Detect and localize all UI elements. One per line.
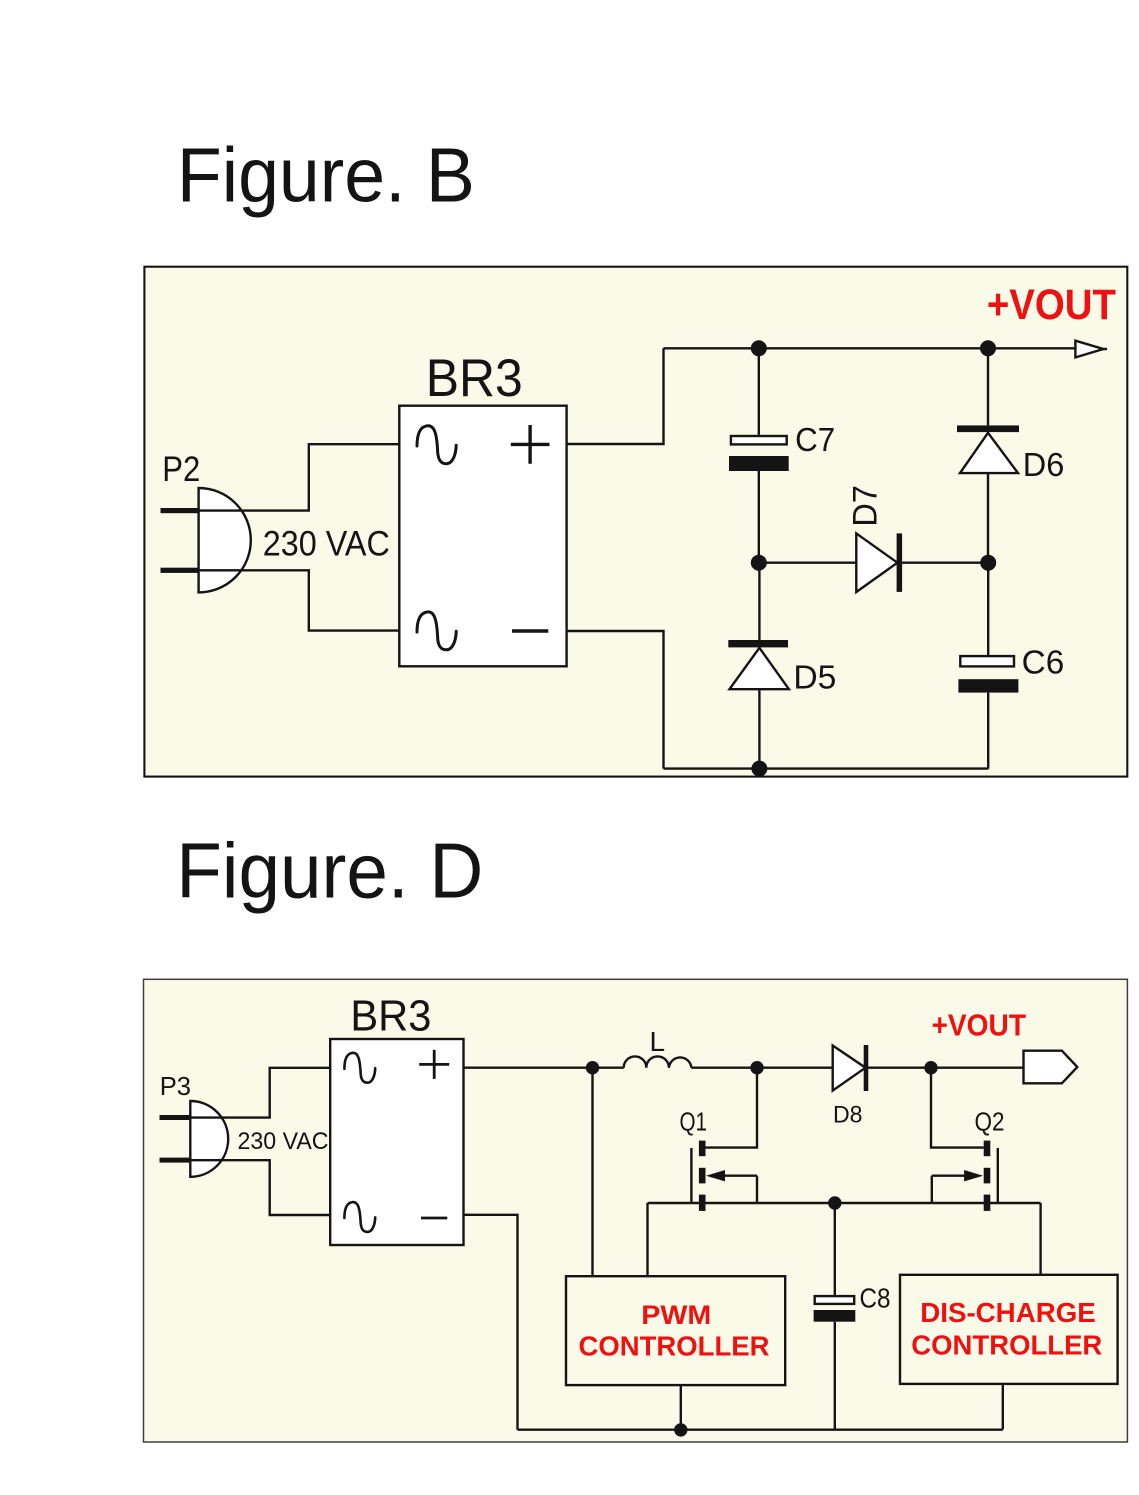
- svg-text:L: L: [650, 1026, 666, 1057]
- svg-text:Figure. D: Figure. D: [176, 826, 483, 914]
- wire top rail: [664, 347, 1076, 349]
- svg-text:+VOUT: +VOUT: [987, 281, 1116, 329]
- transistor Q2: [931, 1068, 1005, 1211]
- svg-text:P3: P3: [160, 1071, 191, 1101]
- junction top rail / C7: [751, 340, 767, 356]
- output arrow (Figure B): [1075, 341, 1103, 358]
- diode D8: [833, 1045, 869, 1128]
- bridge rectifier BR3 (Figure D) body: [330, 1039, 463, 1245]
- wire P2 bottom to BR3 AC2: [199, 570, 400, 630]
- wire PWM controller to bottom rail: [680, 1385, 682, 1430]
- wire mid rail left: [759, 562, 857, 564]
- figure B frame: [144, 267, 1127, 777]
- wire top rail (Figure D) left of inductor: [464, 1066, 624, 1068]
- P2 prong bottom: [161, 568, 199, 573]
- figure D frame: [144, 979, 1128, 1442]
- bridge rectifier BR3 (Figure B) body: [399, 406, 566, 667]
- svg-text:D6: D6: [1023, 446, 1065, 483]
- wire Q2 gate leg down to dis-charge controller: [1039, 1203, 1041, 1275]
- BR3 minus pin symbol: [512, 629, 548, 632]
- svg-text:Q1: Q1: [680, 1106, 708, 1136]
- svg-text:Q2: Q2: [975, 1106, 1005, 1136]
- junction bottom rail / D5: [751, 761, 767, 777]
- DIS-CHARGE controller box: [900, 1275, 1118, 1384]
- wire BR3 minus to bottom rail (Figure D): [464, 1215, 518, 1430]
- junction top rail / Q1 drain: [750, 1061, 763, 1074]
- wire P3 bottom to BR3 AC2: [190, 1160, 331, 1215]
- output arrow (Figure D): [1024, 1051, 1078, 1084]
- BR3 AC symbol bottom: [417, 612, 456, 650]
- wire PWM input from top rail junction: [591, 1068, 593, 1277]
- svg-text:+VOUT: +VOUT: [932, 1008, 1027, 1043]
- wire top rail (Figure D) right of inductor: [691, 1066, 1023, 1068]
- wire bottom rail (Figure D): [518, 1428, 1003, 1430]
- wire P3 top to BR3 AC1: [190, 1068, 331, 1118]
- P2 prong top: [161, 508, 199, 513]
- wire source rail y1203: [648, 1202, 1041, 1204]
- BR3 D AC symbol bottom: [344, 1202, 375, 1232]
- svg-text:PWM: PWM: [641, 1300, 711, 1330]
- svg-text:D7: D7: [846, 485, 884, 527]
- wire P2 top to BR3 AC1: [199, 444, 400, 510]
- svg-text:230 VAC: 230 VAC: [263, 524, 390, 563]
- junction top rail / D6: [980, 340, 996, 356]
- diode D6: [957, 348, 1064, 562]
- P3 prong bottom: [160, 1158, 191, 1163]
- svg-text:BR3: BR3: [426, 349, 523, 408]
- junction mid rail / D6-C6: [980, 555, 996, 571]
- wire bottom rail: [664, 767, 989, 769]
- junction top rail / Q2 drain: [924, 1061, 937, 1074]
- svg-text:P2: P2: [162, 450, 200, 489]
- PWM controller box: [566, 1276, 785, 1385]
- svg-text:D5: D5: [793, 659, 836, 696]
- capacitor C8: [814, 1203, 891, 1430]
- transistor Q1: [680, 1068, 758, 1211]
- svg-text:DIS-CHARGE: DIS-CHARGE: [920, 1297, 1096, 1328]
- BR3 D AC symbol top: [344, 1053, 375, 1083]
- svg-text:Figure. B: Figure. B: [177, 133, 475, 219]
- wire BR3 plus output up to top rail: [567, 348, 664, 444]
- wire dis-charge controller to bottom rail: [1002, 1384, 1004, 1430]
- BR3 D minus pin symbol: [421, 1217, 447, 1220]
- BR3 D plus pin symbol: [419, 1050, 449, 1079]
- svg-text:C8: C8: [860, 1283, 891, 1314]
- svg-text:BR3: BR3: [350, 992, 431, 1041]
- svg-text:CONTROLLER: CONTROLLER: [579, 1331, 770, 1362]
- junction bottom rail / PWM: [674, 1423, 687, 1436]
- BR3 plus pin symbol: [511, 425, 550, 464]
- junction mid rail / C7-D5: [751, 555, 767, 571]
- junction source rail / C8: [828, 1196, 841, 1209]
- wire mid rail right: [899, 562, 988, 564]
- diode D7: [846, 485, 902, 592]
- P3 prong top: [160, 1115, 191, 1120]
- svg-text:D8: D8: [833, 1101, 863, 1128]
- wire BR3 minus output down to bottom rail: [567, 631, 664, 769]
- svg-text:C6: C6: [1022, 643, 1065, 680]
- capacitor C7: [729, 348, 835, 562]
- diode D5: [728, 563, 836, 769]
- junction top rail / PWM leg: [586, 1061, 599, 1074]
- svg-text:CONTROLLER: CONTROLLER: [911, 1330, 1102, 1361]
- svg-text:C7: C7: [795, 421, 835, 458]
- svg-text:230 VAC: 230 VAC: [238, 1128, 329, 1155]
- capacitor C6: [958, 563, 1064, 769]
- BR3 AC symbol top: [417, 426, 456, 464]
- inductor L: [624, 1056, 692, 1067]
- connector P2 plug body: [199, 488, 251, 592]
- connector P3 plug body: [190, 1101, 228, 1177]
- wire Q1 gate leg down to PWM controller: [646, 1203, 648, 1276]
